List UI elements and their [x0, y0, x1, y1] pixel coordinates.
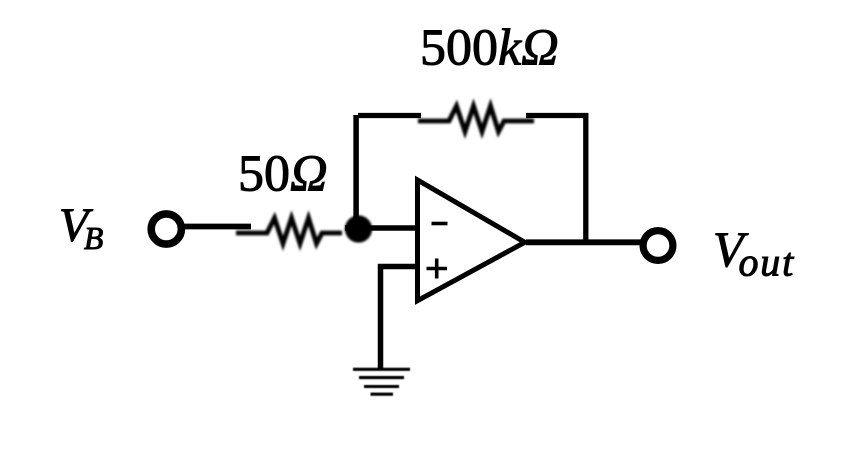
svg-text:500kΩ: 500kΩ [420, 20, 559, 77]
svg-text:50Ω: 50Ω [238, 146, 328, 203]
svg-text:B: B [84, 221, 103, 256]
svg-text:out: out [739, 240, 796, 285]
